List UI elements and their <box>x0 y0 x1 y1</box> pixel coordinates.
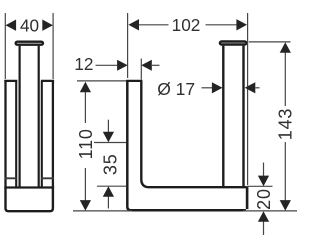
svg-text:20: 20 <box>254 188 274 210</box>
svg-text:110: 110 <box>76 128 96 159</box>
svg-text:143: 143 <box>276 108 296 140</box>
svg-text:Ø 17: Ø 17 <box>157 79 195 99</box>
svg-text:12: 12 <box>74 54 93 74</box>
svg-text:102: 102 <box>172 15 201 35</box>
svg-text:40: 40 <box>20 15 39 35</box>
svg-text:35: 35 <box>100 153 120 175</box>
